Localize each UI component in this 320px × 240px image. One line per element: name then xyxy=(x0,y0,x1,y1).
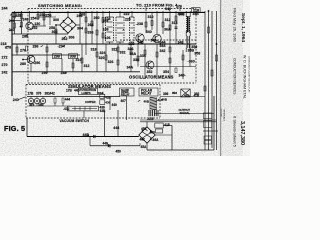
svg-text:108: 108 xyxy=(103,28,109,32)
svg-text:SWITCHING MEANS:: SWITCHING MEANS: xyxy=(38,3,83,8)
svg-text:176: 176 xyxy=(176,5,182,9)
svg-text:384: 384 xyxy=(98,92,104,96)
svg-text:462: 462 xyxy=(140,137,146,141)
svg-text:316: 316 xyxy=(178,12,184,16)
svg-text:378: 378 xyxy=(29,103,35,107)
svg-text:34B: 34B xyxy=(193,12,200,16)
svg-text:OSCILLATOR MEANS: OSCILLATOR MEANS xyxy=(129,75,174,80)
svg-text:354: 354 xyxy=(163,70,169,74)
svg-text:3,147,380: 3,147,380 xyxy=(239,121,245,145)
svg-text:330: 330 xyxy=(133,58,139,62)
svg-text:-296: -296 xyxy=(33,61,40,65)
svg-text:GASEOUS GLOW DETECTOR: GASEOUS GLOW DETECTOR xyxy=(248,56,251,93)
svg-text:17B: 17B xyxy=(28,91,35,95)
svg-text:332: 332 xyxy=(120,50,126,54)
svg-text:252: 252 xyxy=(32,26,38,30)
svg-text:450: 450 xyxy=(116,149,122,153)
svg-text:W. D. BUCKINGHAM ETAL: W. D. BUCKINGHAM ETAL xyxy=(243,55,247,99)
svg-text:348: 348 xyxy=(178,41,184,45)
svg-text:346: 346 xyxy=(165,7,171,11)
svg-text:320: 320 xyxy=(99,56,105,60)
svg-text:-432: -432 xyxy=(63,107,70,111)
svg-text:392: 392 xyxy=(194,92,200,96)
svg-text:246: 246 xyxy=(9,19,15,23)
svg-text:415: 415 xyxy=(164,123,170,127)
svg-text:326: 326 xyxy=(108,60,114,64)
svg-text:376: 376 xyxy=(36,91,42,95)
svg-text:358: 358 xyxy=(194,51,200,55)
svg-text:244: 244 xyxy=(2,7,8,11)
svg-text:LAMPS: LAMPS xyxy=(82,91,91,95)
svg-text:-238: -238 xyxy=(136,22,143,26)
svg-text:45A: 45A xyxy=(141,145,148,149)
svg-text:270: 270 xyxy=(2,63,8,67)
svg-text:RELAY: RELAY xyxy=(121,92,130,96)
svg-text:542: 542 xyxy=(151,39,157,43)
svg-text:FIG. 5: FIG. 5 xyxy=(4,124,25,133)
svg-text:40B: 40B xyxy=(162,98,168,102)
svg-text:460: 460 xyxy=(150,130,156,134)
svg-text:42B: 42B xyxy=(105,95,111,99)
svg-text:RELAY: RELAY xyxy=(141,92,152,96)
svg-text:444: 444 xyxy=(65,98,71,102)
svg-text:268: 268 xyxy=(79,13,85,17)
svg-text:318: 318 xyxy=(91,48,97,52)
svg-text:42D: 42D xyxy=(184,94,190,98)
svg-text:240: 240 xyxy=(13,98,19,102)
svg-text:-294: -294 xyxy=(58,45,65,49)
svg-text:280: 280 xyxy=(20,62,26,66)
svg-text:35B: 35B xyxy=(188,48,195,52)
svg-text:240: 240 xyxy=(9,28,15,32)
svg-text:TO. 210 FROM FIG. 4.: TO. 210 FROM FIG. 4. xyxy=(136,3,179,8)
svg-text:540: 540 xyxy=(146,30,152,34)
svg-text:260: 260 xyxy=(94,16,100,20)
svg-text:CONDUCTION DEVICES: CONDUCTION DEVICES xyxy=(233,58,237,94)
svg-text:336: 336 xyxy=(128,47,134,51)
svg-text:310: 310 xyxy=(76,58,82,62)
svg-text:352: 352 xyxy=(147,70,153,74)
svg-text:342: 342 xyxy=(160,49,166,53)
svg-text:242: 242 xyxy=(2,71,8,75)
svg-text:442: 442 xyxy=(50,91,56,95)
svg-text:17B: 17B xyxy=(66,89,73,93)
svg-text:40B: 40B xyxy=(144,99,150,103)
svg-text:258: 258 xyxy=(49,26,55,30)
svg-text:COPPER: COPPER xyxy=(85,101,96,104)
svg-text:226: 226 xyxy=(125,18,131,22)
svg-text:-46A: -46A xyxy=(152,138,160,142)
svg-text:344: 344 xyxy=(160,41,166,45)
svg-text:302: 302 xyxy=(52,30,58,34)
svg-text:446: 446 xyxy=(103,141,109,145)
svg-text:106: 106 xyxy=(105,36,111,40)
svg-text:306: 306 xyxy=(69,36,75,40)
svg-text:43B: 43B xyxy=(100,109,107,113)
svg-text:324: 324 xyxy=(100,51,106,55)
svg-text:228: 228 xyxy=(129,42,135,46)
svg-text:44B: 44B xyxy=(83,133,90,137)
svg-text:312: 312 xyxy=(84,64,90,68)
svg-text:248: 248 xyxy=(23,18,29,22)
svg-text:322: 322 xyxy=(112,47,118,51)
svg-text:6 Sheets-Sheet 5: 6 Sheets-Sheet 5 xyxy=(233,116,238,148)
svg-text:314: 314 xyxy=(172,21,178,25)
svg-text:-334: -334 xyxy=(139,54,146,58)
svg-text:272: 272 xyxy=(2,56,8,60)
svg-text:-360: -360 xyxy=(188,59,195,63)
svg-text:440: 440 xyxy=(112,103,118,107)
svg-text:448: 448 xyxy=(113,126,119,130)
svg-text:266: 266 xyxy=(88,31,94,35)
svg-text:276: 276 xyxy=(20,49,26,53)
svg-text:340-: 340- xyxy=(179,73,187,77)
svg-text:458: 458 xyxy=(141,127,147,131)
svg-text:264: 264 xyxy=(88,23,94,27)
svg-text:407: 407 xyxy=(121,99,127,103)
svg-text:Sept. 1, 1964: Sept. 1, 1964 xyxy=(240,13,246,42)
svg-text:Filed May 26, 1960: Filed May 26, 1960 xyxy=(233,8,238,43)
svg-text:34A: 34A xyxy=(127,66,134,70)
svg-text:SIGNAL: SIGNAL xyxy=(180,111,191,115)
svg-text:TO LINE: TO LINE xyxy=(220,109,222,118)
svg-text:298: 298 xyxy=(54,55,60,59)
svg-text:VACUUM SWITCH: VACUUM SWITCH xyxy=(60,119,90,123)
svg-text:TERMINALS: TERMINALS xyxy=(222,109,225,122)
svg-text:254: 254 xyxy=(31,17,37,21)
svg-text:310: 310 xyxy=(148,15,154,19)
svg-text:286: 286 xyxy=(33,45,39,49)
svg-text:396: 396 xyxy=(163,92,169,96)
svg-text:44D: 44D xyxy=(74,89,81,93)
svg-text:380: 380 xyxy=(38,103,44,107)
svg-text:300: 300 xyxy=(53,18,59,22)
svg-text:222: 222 xyxy=(124,12,130,16)
svg-text:312: 312 xyxy=(165,18,171,22)
